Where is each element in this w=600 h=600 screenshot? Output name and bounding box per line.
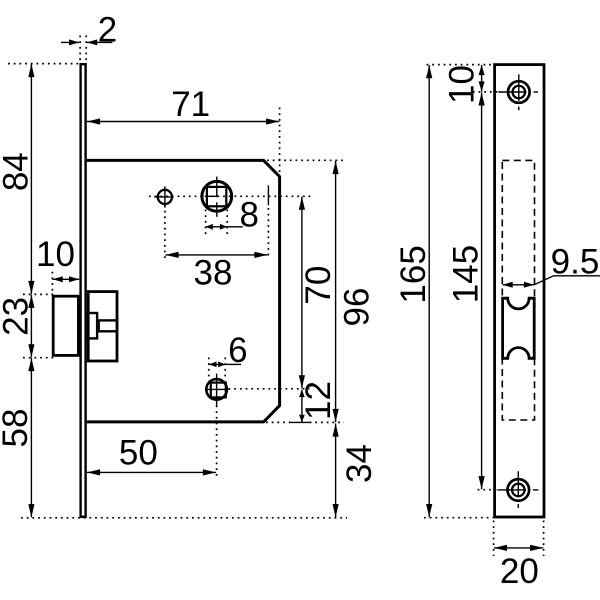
extension line from case bottom edge bbox=[266, 421, 290, 423]
dim 84 line bbox=[30, 64, 32, 294]
lower square 6mm bbox=[211, 383, 226, 398]
dim 23 line bbox=[30, 295, 32, 358]
top screw hole vertical center mark bbox=[518, 74, 520, 101]
svg-text:145: 145 bbox=[447, 245, 486, 303]
dim 2 right arrow bbox=[87, 41, 112, 43]
top screw hole inner bbox=[513, 86, 526, 99]
bottom hole center extension line bbox=[478, 489, 499, 491]
dim 12 bottom extension segment bbox=[290, 421, 310, 423]
faceplate bottom extension line bbox=[21, 517, 347, 519]
svg-text:8: 8 bbox=[239, 195, 258, 234]
dim 6 extension line right bbox=[224, 358, 226, 381]
lower hole center line bbox=[229, 388, 310, 390]
dim 38 extension line right bbox=[267, 208, 269, 259]
faceplate strip (side view) bbox=[81, 64, 86, 517]
dim 20 extension line right bbox=[543, 521, 545, 557]
top screw hole vertical dash bbox=[518, 107, 520, 111]
svg-text:84: 84 bbox=[0, 152, 35, 191]
svg-text:38: 38 bbox=[194, 253, 233, 292]
dim 8 line bbox=[206, 226, 228, 228]
dim 20 line bbox=[494, 547, 543, 549]
dim 71 line bbox=[87, 121, 279, 123]
dim 34 line bbox=[335, 423, 337, 517]
dim 70 line bbox=[301, 197, 303, 389]
svg-text:10: 10 bbox=[36, 235, 75, 274]
dim 2 left arrow bbox=[61, 41, 79, 43]
spindle center mark lower bbox=[216, 202, 218, 217]
dim 50 extension line bbox=[216, 406, 218, 479]
fixing hole bbox=[158, 190, 172, 204]
dim 58 line bbox=[30, 358, 32, 517]
top screw hole horizontal center mark bbox=[498, 91, 526, 93]
extension line continuation to dim 96/34 bbox=[310, 421, 344, 423]
latch bolt head bbox=[53, 296, 78, 355]
dim 145 line bbox=[481, 92, 483, 489]
latch bolt front view bbox=[503, 298, 535, 358]
dim 20 extension line left bbox=[493, 521, 495, 557]
dim 8 extension line left bbox=[205, 210, 207, 235]
dim 10 line bbox=[53, 278, 80, 280]
svg-text:50: 50 bbox=[119, 433, 158, 472]
latch follower plate bbox=[88, 292, 117, 361]
dim 12 line bbox=[301, 390, 303, 422]
dim 2 extension line right bbox=[85, 36, 87, 63]
svg-text:9.5: 9.5 bbox=[551, 242, 600, 281]
dim 9.5 leader bbox=[534, 276, 600, 285]
spindle center line bbox=[149, 195, 311, 197]
spindle center mark upper bbox=[216, 177, 218, 198]
svg-text:71: 71 bbox=[171, 85, 210, 124]
bottom screw hole inner bbox=[512, 484, 525, 497]
spindle center mark left bbox=[205, 195, 218, 197]
dim 38 reference tick bbox=[267, 185, 269, 205]
bottom screw hole vertical dash bbox=[517, 504, 519, 508]
plate bottom extension line bbox=[424, 517, 493, 519]
svg-text:10: 10 bbox=[442, 65, 481, 104]
bottom screw hole horizontal center mark bbox=[498, 489, 526, 491]
dim 8 leader bbox=[227, 226, 243, 228]
dim 2 extension line left bbox=[79, 36, 81, 63]
dim 10 line (plate top to hole) bbox=[481, 65, 483, 92]
bottom screw hole horizontal dash bbox=[533, 489, 539, 491]
dim 50 line bbox=[87, 471, 216, 473]
fixing hole horizontal center mark bbox=[154, 196, 173, 198]
svg-text:6: 6 bbox=[228, 331, 247, 370]
plate top extension line bbox=[427, 64, 494, 66]
dim 84/23 shared extension line bbox=[23, 293, 54, 295]
dim 6 leader bbox=[225, 363, 241, 365]
dim 23/58 shared extension line bbox=[23, 357, 54, 359]
fixing hole vertical center mark bbox=[164, 186, 166, 207]
dim 6 extension line left bbox=[208, 358, 210, 381]
top hole center extension line bbox=[473, 91, 499, 93]
svg-text:23: 23 bbox=[0, 297, 35, 336]
svg-text:70: 70 bbox=[299, 266, 338, 305]
dim 96 line bbox=[335, 161, 337, 422]
svg-text:96: 96 bbox=[338, 288, 377, 327]
svg-text:58: 58 bbox=[0, 409, 35, 448]
top screw hole outer bbox=[508, 81, 530, 103]
lower hole horizontal center mark bbox=[205, 388, 229, 390]
hidden mortise pocket (dashed) bbox=[502, 160, 534, 420]
dim 9.5 line bbox=[503, 284, 535, 286]
svg-text:165: 165 bbox=[394, 245, 433, 303]
faceplate front view plate bbox=[495, 65, 544, 517]
lock case outline (side view) bbox=[87, 160, 280, 422]
extension line from case top edge bbox=[267, 159, 344, 161]
dim 6 line bbox=[209, 363, 225, 365]
dim 165 line bbox=[428, 65, 430, 517]
dim 71 extension line bbox=[279, 108, 281, 177]
dim 38 extension line left bbox=[164, 205, 166, 259]
dim 10 extension line bbox=[51, 272, 53, 296]
bottom screw hole vertical center mark bbox=[517, 471, 519, 497]
latch stem bbox=[99, 320, 117, 331]
lower square hole circle bbox=[206, 379, 227, 400]
top screw hole horizontal dash bbox=[534, 91, 538, 93]
dim 8 extension line right bbox=[226, 210, 228, 235]
dim 38 line bbox=[165, 254, 267, 256]
lower hole vertical center mark bbox=[216, 374, 218, 406]
svg-text:2: 2 bbox=[98, 11, 117, 50]
bottom screw hole outer bbox=[508, 479, 530, 501]
dim 84 top extension line bbox=[8, 63, 79, 65]
svg-text:20: 20 bbox=[500, 552, 539, 591]
spindle hole circle bbox=[202, 181, 232, 211]
svg-text:34: 34 bbox=[340, 444, 379, 483]
latch guide block bbox=[88, 313, 97, 338]
spindle square 8mm bbox=[207, 187, 226, 206]
svg-text:12: 12 bbox=[299, 381, 338, 420]
